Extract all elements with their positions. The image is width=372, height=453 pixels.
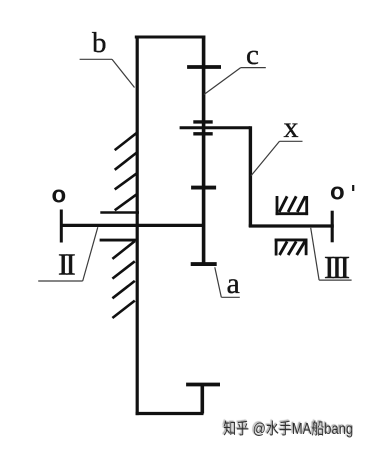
apostrophe of o-prime: [352, 185, 354, 191]
bearing block lower: left border: [275, 239, 278, 256]
central gear shaft axis line: [202, 36, 206, 265]
svg-text:x: x: [284, 111, 299, 144]
ring gear b: left wall: [136, 36, 139, 416]
leader diagonal for label x: [251, 141, 280, 176]
carrier x upper sleeve bar: [193, 120, 212, 123]
bearing block upper hatch 1: [279, 196, 287, 212]
ring gear b: bottom line: [136, 412, 204, 415]
carrier x arm (horizontal): [180, 126, 251, 129]
shaft III horizontal line: [249, 224, 334, 227]
leader underline for label III: [319, 279, 352, 281]
fixed frame lower support baseline: [100, 239, 138, 242]
svg-text:II: II: [58, 247, 75, 282]
fixed frame upper hatch stroke 3: [115, 173, 137, 189]
fixed frame upper support baseline: [100, 211, 139, 214]
bearing block upper hatch 2: [288, 196, 296, 212]
gear c mesh tick (top): [187, 65, 221, 69]
fixed frame lower hatch stroke 2: [112, 261, 134, 278]
middle gear tick on axis: [191, 186, 216, 190]
bearing block lower hatch 3: [297, 242, 305, 256]
bearing block lower hatch 1: [280, 242, 288, 256]
ring gear b: top line: [135, 36, 205, 39]
bearing block lower: right border: [305, 239, 308, 256]
svg-text:o: o: [52, 182, 67, 209]
leader underline for label x: [280, 140, 303, 142]
sun gear a bar: [191, 262, 217, 266]
shaft II horizontal line: [61, 224, 204, 227]
leader underline for label II: [38, 280, 82, 282]
bearing block lower hatch 2: [288, 242, 296, 256]
svg-text:a: a: [227, 267, 240, 300]
leader underline for label c: [241, 67, 266, 69]
fixed frame upper hatch stroke 1: [115, 133, 137, 150]
svg-text:知乎 @水手MA船bang: 知乎 @水手MA船bang: [223, 420, 353, 438]
leader underline for label a: [221, 296, 240, 298]
leader diagonal for label b: [112, 59, 135, 87]
carrier x vertical drop: [249, 126, 252, 227]
leader diagonal for label a: [215, 267, 222, 297]
svg-text:III: III: [324, 249, 349, 285]
shaft III right end tick at o': [331, 211, 334, 243]
bearing block upper hatch 3: [297, 196, 305, 212]
leader underline for label b: [80, 58, 112, 60]
svg-text:b: b: [92, 27, 107, 59]
leader diagonal for label III: [311, 228, 319, 280]
lower gear stub to bottom line: [201, 385, 205, 414]
fixed frame upper hatch stroke 4: [115, 194, 137, 210]
bearing block lower: top border: [275, 238, 308, 241]
shaft II left end tick at o: [60, 210, 63, 243]
leader diagonal for label II: [83, 227, 98, 281]
leader diagonal for label c: [204, 68, 241, 95]
svg-text:o: o: [330, 179, 345, 206]
lower gear bar of ring b: [186, 383, 220, 387]
fixed frame lower hatch stroke 1: [112, 241, 134, 259]
bearing block upper: bottom border: [276, 212, 309, 215]
fixed frame upper hatch stroke 2: [115, 152, 137, 169]
bearing block upper: left border: [276, 196, 279, 215]
fixed frame lower hatch stroke 4: [112, 301, 134, 318]
svg-text:c: c: [246, 39, 259, 71]
bearing block upper: right border: [305, 196, 308, 215]
carrier x lower sleeve bar: [193, 132, 212, 135]
fixed frame lower hatch stroke 3: [112, 281, 134, 298]
